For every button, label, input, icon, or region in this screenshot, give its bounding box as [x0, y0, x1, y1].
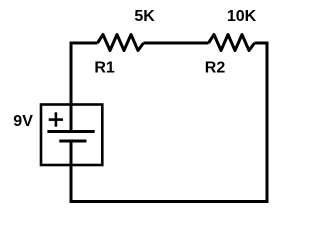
svg-text:R2: R2	[205, 60, 226, 77]
svg-text:5K: 5K	[134, 8, 155, 25]
battery positive plate (long)	[47, 130, 94, 133]
battery plus sign	[49, 112, 63, 126]
svg-text:9V: 9V	[13, 113, 33, 130]
svg-text:R1: R1	[94, 60, 115, 77]
svg-text:10K: 10K	[227, 8, 257, 25]
battery V1 box	[41, 105, 102, 166]
resistor R1	[98, 35, 144, 51]
resistor R2	[209, 35, 255, 51]
wire: top middle segment between R1 and R2	[144, 42, 209, 45]
wire: left vertical bottom segment from battery to bottom wire	[70, 141, 73, 203]
battery negative plate (short)	[59, 140, 86, 143]
wire: left vertical top segment and top-left corner to R1	[71, 43, 98, 132]
wire: top-right corner and right vertical	[255, 43, 268, 203]
wire: bottom horizontal	[70, 200, 269, 203]
